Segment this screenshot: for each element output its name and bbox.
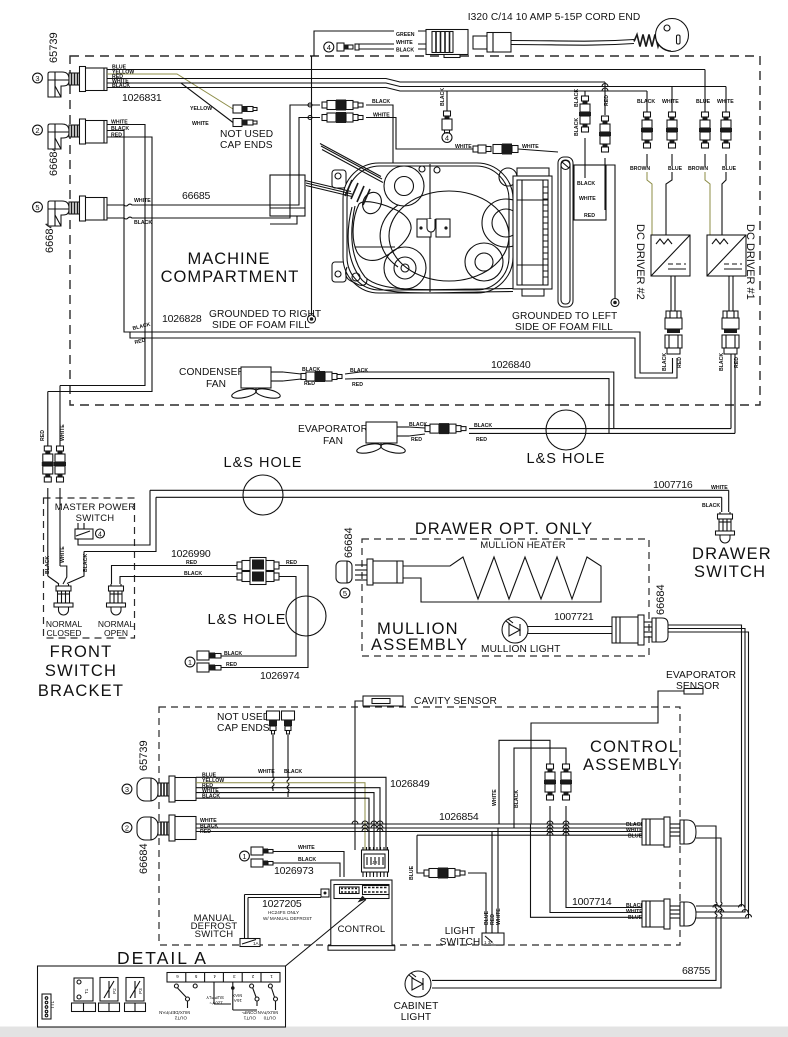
coil [634,35,661,47]
callout 4 + bullet [324,42,334,52]
svg-text:RED: RED [584,213,595,219]
svg-text:1026973: 1026973 [274,865,314,877]
wires to cabinet bus [432,826,717,980]
connector 1b + 1026973 [240,845,344,877]
connector 5 wires 66685 [107,105,320,226]
svg-text:ASSEMBLY: ASSEMBLY [371,636,468,654]
DC driver #2 [634,224,690,300]
svg-text:66684: 66684 [655,584,667,615]
svg-text:BLACK: BLACK [224,651,242,657]
power cord assembly [314,19,689,58]
svg-text:BLACK: BLACK [440,88,446,106]
svg-text:BROWN: BROWN [688,166,708,172]
not used cap ends (bottom) [217,711,302,797]
svg-text:WHITE: WHITE [60,424,66,441]
mullion heater [403,540,601,602]
connector 2b (66684 bottom) [122,815,218,874]
mullion right connectors (66684) [612,584,749,918]
L&S bus wires to drawer switch [150,479,729,512]
connector 2 (66684) [33,119,107,176]
svg-text:BLUE: BLUE [668,166,683,172]
compressor [305,144,530,294]
svg-text:3: 3 [35,74,39,83]
svg-text:66684: 66684 [44,222,56,253]
svg-text:1026831: 1026831 [122,92,162,104]
top strip [334,885,389,899]
svg-text:BLACK: BLACK [574,89,580,107]
svg-text:BLACK: BLACK [702,503,720,509]
svg-text:RED: RED [226,662,237,668]
svg-text:CABINET: CABINET [394,1001,439,1012]
black fuse drop w/ callout 4 (center) [440,88,452,143]
svg-text:WHITE: WHITE [496,908,502,925]
svg-text:MULLION LIGHT: MULLION LIGHT [481,644,560,655]
svg-text:BLACK: BLACK [298,857,316,863]
1026990 harness [112,548,309,668]
grounding strap [558,157,573,307]
svg-text:WHITE: WHITE [662,99,679,105]
leader arrow to control [286,900,367,967]
svg-text:LIGHT: LIGHT [401,1012,432,1023]
svg-text:GREEN: GREEN [396,32,415,38]
fitting rings [345,180,352,196]
dual connector [237,562,242,569]
terminal strip [167,973,280,983]
svg-text:WHITE: WHITE [134,198,151,204]
svg-text:BLUE: BLUE [722,166,737,172]
svg-text:66684: 66684 [138,843,150,874]
svg-text:1: 1 [270,974,273,979]
svg-text:SIDE OF FOAM FILL: SIDE OF FOAM FILL [212,320,310,331]
svg-text:P2: P2 [112,988,117,994]
svg-text:120V~: 120V~ [209,1001,223,1006]
svg-text:BLACK: BLACK [284,769,302,775]
svg-text:1 3A: 1 3A [484,940,494,945]
body [343,163,513,293]
svg-text:WHITE: WHITE [396,40,413,46]
control assembly fuse pair [492,740,572,828]
ground wire from cord green down to right screw [311,56,313,315]
svg-text:BLACK: BLACK [514,790,520,808]
svg-text:EVAPORATOR: EVAPORATOR [666,670,736,681]
svg-text:GROUNDED TO RIGHT: GROUNDED TO RIGHT [209,309,321,320]
svg-text:FAN: FAN [206,379,226,390]
drawer switch [716,512,735,543]
svg-text:4: 4 [98,532,102,539]
svg-text:COMP-: COMP- [241,1010,257,1015]
svg-text:CAVITY SENSOR: CAVITY SENSOR [414,696,497,707]
bottom gray bar [0,1027,788,1037]
strip wiring [174,984,178,988]
svg-text:1007721: 1007721 [554,611,594,623]
svg-text:P3: P3 [138,988,143,994]
svg-text:SWITCH: SWITCH [76,513,115,524]
svg-text:SUPPLY: SUPPLY [206,995,224,1000]
svg-text:BLACK: BLACK [577,181,595,187]
control box [321,847,395,950]
svg-text:5: 5 [343,589,347,598]
stator ellipse [389,191,509,281]
svg-text:BRACKET: BRACKET [38,682,124,700]
svg-text:6: 6 [176,974,179,979]
svg-text:FRONT: FRONT [50,643,113,661]
svg-text:GROUNDED TO LEFT: GROUNDED TO LEFT [512,311,617,322]
TTL [42,994,51,1019]
svg-text:SWITCH: SWITCH [45,662,117,680]
svg-text:3: 3 [125,785,129,794]
svg-text:BLUE: BLUE [409,865,415,880]
mullion connector 5 [336,527,403,598]
connector 3 wires (BLUE,YELLOW,RED,WHITE,BLACK) [107,65,726,123]
svg-text:1: 1 [188,658,192,667]
svg-text:RED: RED [677,357,683,368]
svg-text:BLACK: BLACK [396,48,414,54]
svg-text:RED: RED [411,437,422,443]
svg-text:MAX: MAX [232,993,242,998]
DC2 lower connector stack [662,276,683,371]
svg-text:WHITE: WHITE [579,196,596,202]
compressor terminal wires + ground screws [308,56,620,323]
svg-text:WHITE: WHITE [258,769,275,775]
svg-text:DETAIL A: DETAIL A [117,948,208,968]
mullion assembly dashed border [362,539,649,656]
svg-text:4: 4 [327,43,331,52]
white-white inline connector above compressor [455,144,558,155]
svg-text:L&S HOLE: L&S HOLE [224,455,303,471]
evaporator fan [298,359,735,455]
cabinet light [394,965,711,1023]
svg-text:CONTROL: CONTROL [590,738,679,756]
svg-text:JR: JR [372,860,378,865]
1026854 bus [196,811,642,873]
compressor terminal cover box (left) [270,175,305,224]
svg-text:BLACK: BLACK [719,353,725,371]
svg-text:4: 4 [213,974,216,979]
svg-text:CONTROL: CONTROL [338,924,386,935]
svg-text:DC DRIVER #2: DC DRIVER #2 [634,224,646,300]
svg-text:MASTER POWER: MASTER POWER [55,502,136,513]
connector 2 wires (WHITE,BLACK,RED) [48,120,677,392]
front switch bracket / master power dashed border [44,498,135,638]
svg-text:LIGHT: LIGHT [445,926,476,937]
svg-text:OUT0: OUT0 [263,1016,276,1021]
svg-text:WHITE: WHITE [522,144,539,150]
capacitor box right of compressor [513,168,552,296]
svg-text:WHITE: WHITE [298,845,315,851]
top-left circle [384,166,424,206]
svg-text:SWITCH: SWITCH [694,563,766,581]
svg-text:CLOSED: CLOSED [47,628,82,638]
svg-text:MUX/FAN: MUX/FAN [258,1010,278,1015]
svg-text:WHITE: WHITE [192,121,209,127]
condenser fan [179,367,614,433]
L&S hole circles [243,475,283,515]
svg-text:DRAWER OPT. ONLY: DRAWER OPT. ONLY [415,520,593,538]
machine compartment dashed border [70,56,760,405]
wires to cord housing [314,31,429,56]
center bracket [417,219,431,237]
T1 [74,978,93,1001]
svg-text:16A: 16A [233,998,242,1003]
wires out to L&S bus [78,490,150,545]
connector 1 (1026974) [185,651,300,682]
P2 [100,978,118,1002]
wires into row2 from left [566,806,642,908]
bottom-right circle [465,243,503,281]
66685 inline connectors [308,99,473,163]
svg-text:HC24FS ONLY: HC24FS ONLY [268,910,299,915]
svg-text:W/ MANUAL DEFROST: W/ MANUAL DEFROST [263,916,312,921]
svg-text:1007714: 1007714 [572,896,612,908]
left inner pocket shape [353,202,411,261]
mullion light [481,611,612,655]
svg-text:2: 2 [251,974,254,979]
svg-text:WHITE: WHITE [111,120,128,126]
svg-text:1007716: 1007716 [653,479,693,491]
svg-text:I320 C/14 10 AMP 5-15P CORD EN: I320 C/14 10 AMP 5-15P CORD END [468,12,641,23]
svg-text:BROWN: BROWN [630,166,650,172]
master power switch [55,490,156,583]
connector 3 (top-left, 65739) [33,32,107,97]
svg-text:BLACK: BLACK [637,99,655,105]
svg-text:RED: RED [40,430,46,441]
svg-text:1026849: 1026849 [390,778,430,790]
svg-text:OUT2: OUT2 [174,1016,187,1021]
svg-text:SIDE OF FOAM FILL: SIDE OF FOAM FILL [515,322,613,333]
svg-text:1026990: 1026990 [171,548,211,560]
plug pieces [473,36,487,49]
dome connector row 1 (1026854) [432,817,722,988]
svg-text:BLACK: BLACK [134,220,152,226]
svg-text:68755: 68755 [682,965,711,977]
svg-text:SWITCH: SWITCH [440,937,481,948]
feet bottom-left [346,267,367,285]
connector 5 (66684, third) [33,196,107,253]
plug head [656,19,689,52]
svg-text:RED: RED [111,133,122,139]
evap bus to DC1 stack [469,428,731,430]
svg-text:MACHINE: MACHINE [187,250,270,268]
evaporator sensor [531,670,736,824]
cord housing with hatch [426,30,468,55]
svg-text:1026854: 1026854 [439,811,479,823]
svg-text:BLUE: BLUE [628,915,643,921]
svg-text:2: 2 [35,126,39,135]
svg-text:L&S HOLE: L&S HOLE [527,451,606,467]
svg-text:L&S HOLE: L&S HOLE [208,612,287,628]
connector block above control [362,850,389,872]
svg-text:1027205: 1027205 [262,898,302,910]
left red/white wires to master power fuses [40,386,66,577]
svg-text:BLACK: BLACK [574,118,580,136]
connector 3b (65739 bottom) [122,740,224,802]
svg-text:RED: RED [476,437,487,443]
svg-text:1: 1 [242,852,246,861]
svg-text:MULLION HEATER: MULLION HEATER [480,540,566,551]
not used cap ends (top) [190,105,273,151]
svg-text:OPEN: OPEN [104,628,128,638]
svg-text:65739: 65739 [138,740,150,771]
svg-text:65739: 65739 [48,32,60,63]
svg-text:CONDENSER: CONDENSER [179,367,245,378]
svg-text:RED: RED [352,382,363,388]
svg-text:BLACK: BLACK [83,554,89,572]
blue inline connector + light switch [409,828,504,948]
svg-text:WHITE: WHITE [455,144,472,150]
top-right circles [499,168,517,186]
dome connector row 2 (1007714) [531,806,697,929]
svg-text:EVAPORATOR: EVAPORATOR [298,424,368,435]
detail A box [38,896,367,1028]
svg-text:1A: 1A [253,941,260,946]
svg-text:NOT USED: NOT USED [220,129,273,140]
svg-text:CAP ENDS: CAP ENDS [220,140,273,151]
svg-text:MUX/DEF/FAN: MUX/DEF/FAN [159,1010,190,1015]
DC driver #1 [707,224,756,300]
svg-text:WHITE: WHITE [711,485,728,491]
defrost pin on left edge [321,889,329,897]
svg-text:YELLOW: YELLOW [190,106,212,112]
DC1 lower connector stack [719,276,740,433]
svg-text:BLACK: BLACK [112,83,130,89]
svg-text:ASSEMBLY: ASSEMBLY [583,756,680,774]
svg-text:66685: 66685 [182,190,211,202]
svg-text:66684: 66684 [48,145,60,176]
svg-text:66684: 66684 [343,527,355,558]
svg-text:1026840: 1026840 [491,359,531,371]
svg-text:BLACK: BLACK [662,353,668,371]
bottom-left circle [384,247,426,289]
tubes top-left [321,146,382,179]
P3 [126,978,144,1002]
svg-text:FAN: FAN [323,436,343,447]
wire hop bumps (crossovers) [352,821,752,917]
svg-text:4: 4 [445,134,449,143]
svg-text:2: 2 [125,824,129,833]
cable arc [348,207,513,293]
svg-text:BLACK: BLACK [372,99,390,105]
svg-text:TTL: TTL [50,1000,55,1009]
svg-text:COMPARTMENT: COMPARTMENT [161,268,300,286]
svg-text:WHITE: WHITE [60,546,66,563]
svg-text:5: 5 [35,203,39,212]
svg-text:BLACK: BLACK [111,126,129,132]
svg-text:SWITCH: SWITCH [195,929,234,940]
mounting plate tabs [332,170,346,188]
svg-text:OUT1: OUT1 [243,1016,256,1021]
svg-text:1026828: 1026828 [162,313,202,325]
three wires to right riser [668,625,742,906]
svg-text:3: 3 [233,974,236,979]
svg-text:T1: T1 [84,988,89,994]
svg-text:BLACK: BLACK [45,556,51,574]
svg-text:NOT USED: NOT USED [217,712,270,723]
cavity sensor [355,696,497,850]
1026849 bus [196,777,430,850]
fuse columns to DC drivers [574,70,737,236]
manual defrost switch + 1027205 [191,895,321,947]
svg-text:1026974: 1026974 [260,670,300,682]
NC / NO switches [45,546,134,638]
cord to coil [511,40,634,42]
svg-text:DRAWER: DRAWER [692,545,772,563]
small top bolts [434,167,440,173]
svg-text:BLUE: BLUE [628,834,643,840]
svg-text:RED: RED [304,381,315,387]
svg-text:5: 5 [194,974,197,979]
control assembly dashed border [159,707,680,945]
svg-text:CAP ENDS: CAP ENDS [217,723,270,734]
svg-text:WHITE: WHITE [492,789,498,806]
svg-text:BLUE: BLUE [696,99,711,105]
